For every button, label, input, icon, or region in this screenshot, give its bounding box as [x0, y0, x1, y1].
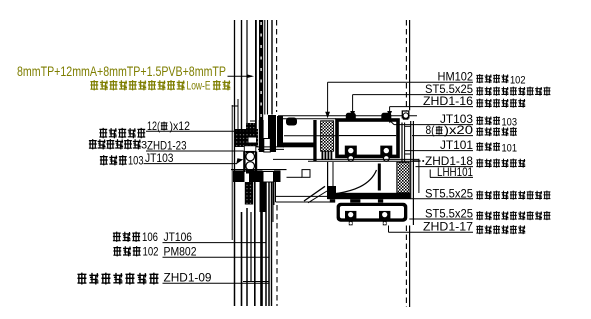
svg-text:ST5.5x25: ST5.5x25 [425, 186, 473, 200]
svg-text:Low-E: Low-E [187, 81, 211, 93]
svg-text:PM802: PM802 [164, 245, 197, 259]
svg-text:ZHD1-09: ZHD1-09 [164, 271, 212, 285]
svg-text:106: 106 [142, 232, 158, 244]
svg-text:103: 103 [128, 156, 144, 168]
svg-text:JT103: JT103 [145, 151, 174, 165]
svg-text:103: 103 [502, 117, 518, 129]
svg-text:ZHD1-16: ZHD1-16 [423, 94, 473, 108]
svg-text:8mmTP+12mmA+8mmTP+1.5PVB+8mmTP: 8mmTP+12mmA+8mmTP+1.5PVB+8mmTP [17, 63, 226, 79]
svg-text:102: 102 [143, 247, 159, 259]
svg-text:8(: 8( [426, 123, 435, 137]
svg-text:ZHD1-17: ZHD1-17 [423, 220, 473, 234]
svg-text:102: 102 [510, 75, 526, 87]
svg-text:ST5.5x25: ST5.5x25 [425, 207, 473, 221]
svg-text:101: 101 [502, 143, 518, 155]
svg-text:)x20: )x20 [444, 123, 473, 137]
svg-text:LHH101: LHH101 [437, 165, 473, 179]
svg-text:12(: 12( [147, 119, 160, 133]
svg-text:JT106: JT106 [164, 230, 193, 244]
svg-text:)x12: )x12 [170, 119, 191, 133]
svg-text:JT101: JT101 [440, 138, 473, 152]
